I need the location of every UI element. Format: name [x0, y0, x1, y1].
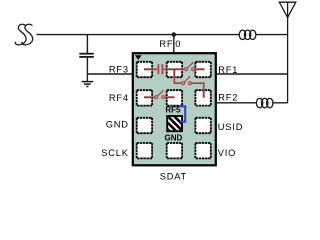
wire RF2	[216, 102, 288, 104]
blue jumper wire RF5 to GND paddle	[180, 106, 185, 122]
red wire corner to RF2 pad	[191, 83, 203, 90]
svg-text:GND: GND	[106, 119, 129, 129]
wire RF0 drop with junction dot	[172, 33, 175, 53]
ground	[82, 82, 94, 87]
pad RF2 (2,3)	[195, 90, 210, 105]
pad GND (3,1)	[137, 118, 152, 133]
red wire row2 from RF4 pad	[144, 96, 153, 98]
wire RF1	[216, 73, 288, 75]
svg-text:RF2: RF2	[218, 92, 238, 102]
pad USID (3,3)	[195, 118, 210, 133]
svg-text:SDAT: SDAT	[160, 172, 187, 182]
svg-text:0: 0	[175, 39, 181, 49]
RF source SS	[15, 24, 32, 45]
pad RF3 (1,1)	[137, 62, 152, 77]
svg-text:RF3: RF3	[109, 64, 129, 74]
red wire into RF5 pad	[165, 96, 167, 98]
pad VIO (4,3)	[195, 143, 210, 158]
red wire cap to RF0 pad	[164, 68, 167, 70]
svg-text:RF5: RF5	[165, 106, 181, 115]
pad GND paddle hatched (3,2)	[160, 102, 190, 152]
svg-text:SCLK: SCLK	[101, 148, 129, 158]
pad SCLK (4,1)	[137, 143, 152, 158]
pad SDAT (4,2)	[167, 143, 182, 158]
wire: top net from source to antenna	[37, 34, 288, 36]
pad RF1 (1,3)	[195, 62, 210, 77]
svg-text:GND: GND	[165, 133, 183, 142]
capacitor C2 (red, internal)	[158, 64, 162, 74]
red wire into RF1 pad	[195, 68, 198, 70]
red wire across RF0 pad	[167, 68, 182, 70]
svg-text:RF: RF	[159, 39, 173, 49]
pad RF5 (2,2)	[167, 90, 182, 105]
pin 1 marker	[135, 55, 142, 60]
svg-text:USID: USID	[218, 122, 243, 132]
red wire inside RF3 pad	[144, 68, 153, 70]
chip U1 body	[133, 53, 216, 165]
pad RF4 (2,1)	[137, 90, 152, 105]
antenna	[279, 2, 296, 103]
inductor L1 (top coil)	[239, 30, 256, 39]
svg-text:RF4: RF4	[109, 93, 129, 103]
red wire to switch SW1	[182, 68, 185, 70]
switch SW1 (row1)	[185, 62, 195, 70]
red wire to capacitor C2	[153, 68, 157, 70]
svg-text:VIO: VIO	[218, 148, 236, 158]
svg-text:RF1: RF1	[218, 65, 238, 75]
capacitor C1 branch	[79, 35, 94, 82]
switch SW3 (row2)	[155, 91, 165, 99]
red feed wire down from RF0 pad	[173, 69, 175, 77]
switch SW2 (diagonal feed)	[182, 76, 192, 84]
pad RF0 (1,2)	[167, 62, 182, 77]
inductor L2 (RF2 coil)	[256, 98, 273, 107]
wire RF3	[87, 73, 132, 75]
